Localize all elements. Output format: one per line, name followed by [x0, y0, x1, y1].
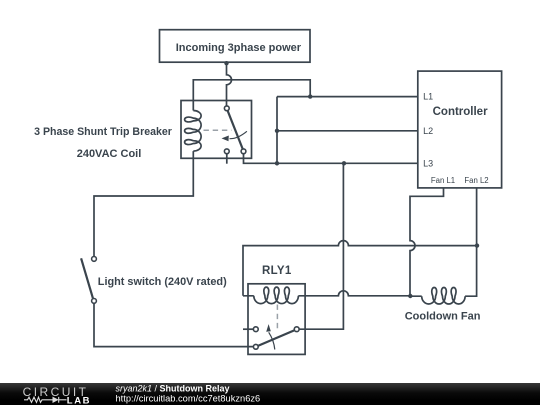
svg-text:3 Phase Shunt Trip Breaker: 3 Phase Shunt Trip Breaker — [34, 126, 172, 138]
junction node at source — [224, 61, 228, 65]
light switch terminal bottom — [92, 299, 97, 304]
relay actuation dashed link — [276, 305, 278, 329]
wire relay coil left up and across to Fan L2 (hop over L3 drop) — [243, 241, 477, 296]
relay terminal NC — [253, 327, 258, 332]
breaker actuation dashed link — [204, 129, 232, 131]
svg-text:Incoming 3phase power: Incoming 3phase power — [176, 42, 302, 54]
wire Fan L1 to fan (hop over coil wire) — [410, 188, 444, 296]
junction node L2 — [275, 129, 279, 133]
breaker coil (vertical inductor) — [185, 111, 202, 152]
wire light switch to relay contact — [94, 303, 253, 346]
svg-text:http://circuitlab.com/cc7et8uk: http://circuitlab.com/cc7et8ukzn6z6 — [116, 394, 261, 404]
svg-text:LAB: LAB — [67, 395, 91, 405]
power source box Incoming 3phase power — [160, 30, 311, 63]
relay RLY1 box — [248, 284, 305, 355]
footer bar — [0, 383, 540, 405]
wire L2 — [277, 130, 418, 132]
breaker switch terminal right — [241, 149, 246, 154]
svg-text:sryan2k1 / Shutdown Relay: sryan2k1 / Shutdown Relay — [116, 384, 230, 394]
cooldown fan inductor L1 — [410, 288, 465, 305]
wire bus vertical L1-L2-L3 — [276, 97, 278, 164]
junction node L3-relay — [342, 161, 346, 165]
breaker switch unused pole stub — [226, 154, 228, 164]
wire relay common to L3 net — [299, 163, 343, 329]
svg-text:RLY1: RLY1 — [262, 265, 292, 277]
svg-text:240VAC Coil: 240VAC Coil — [77, 148, 142, 160]
light switch SW1 blade — [81, 258, 93, 298]
controller U1 box — [418, 71, 502, 188]
svg-text:Light switch (240V rated): Light switch (240V rated) — [98, 276, 227, 288]
wire breaker coil bottom to light switch — [94, 151, 193, 256]
breaker switch terminal center — [224, 149, 229, 154]
svg-text:L1: L1 — [423, 92, 433, 102]
breaker actuation arrow — [230, 131, 247, 138]
wire coil feed: breaker coil top to corner to L1 junction — [193, 80, 310, 111]
wire from source dot down with hop over L1 feed — [227, 63, 232, 106]
junction node Fan L2-coil — [475, 243, 479, 247]
relay terminal NO — [253, 344, 258, 349]
wire L3 — [244, 154, 418, 164]
breaker switch terminal top — [224, 106, 229, 111]
wire Fan L2 down to fan right — [465, 188, 477, 296]
relay terminal common — [294, 327, 299, 332]
svg-text:L2: L2 — [423, 126, 433, 136]
junction node L3 — [275, 161, 279, 165]
relay switch blade — [258, 330, 295, 346]
svg-text:Cooldown Fan: Cooldown Fan — [405, 310, 481, 322]
relay actuation arrow — [269, 332, 275, 349]
svg-text:Controller: Controller — [433, 106, 488, 118]
junction node L1 — [308, 94, 312, 98]
light switch terminal top — [92, 257, 97, 262]
breaker CB1 box — [181, 101, 252, 159]
breaker switch blade — [228, 111, 243, 149]
wire L1 — [277, 96, 418, 98]
relay coil with left lead and right wire to fan (hop over L3 drop) — [243, 287, 410, 304]
svg-text:L3: L3 — [423, 158, 433, 168]
svg-text:Fan L2: Fan L2 — [464, 176, 488, 185]
svg-text:Fan L1: Fan L1 — [431, 176, 455, 185]
relay NC stub — [243, 328, 253, 330]
junction node fan left — [408, 294, 412, 298]
logo resistor and diode — [24, 397, 67, 403]
